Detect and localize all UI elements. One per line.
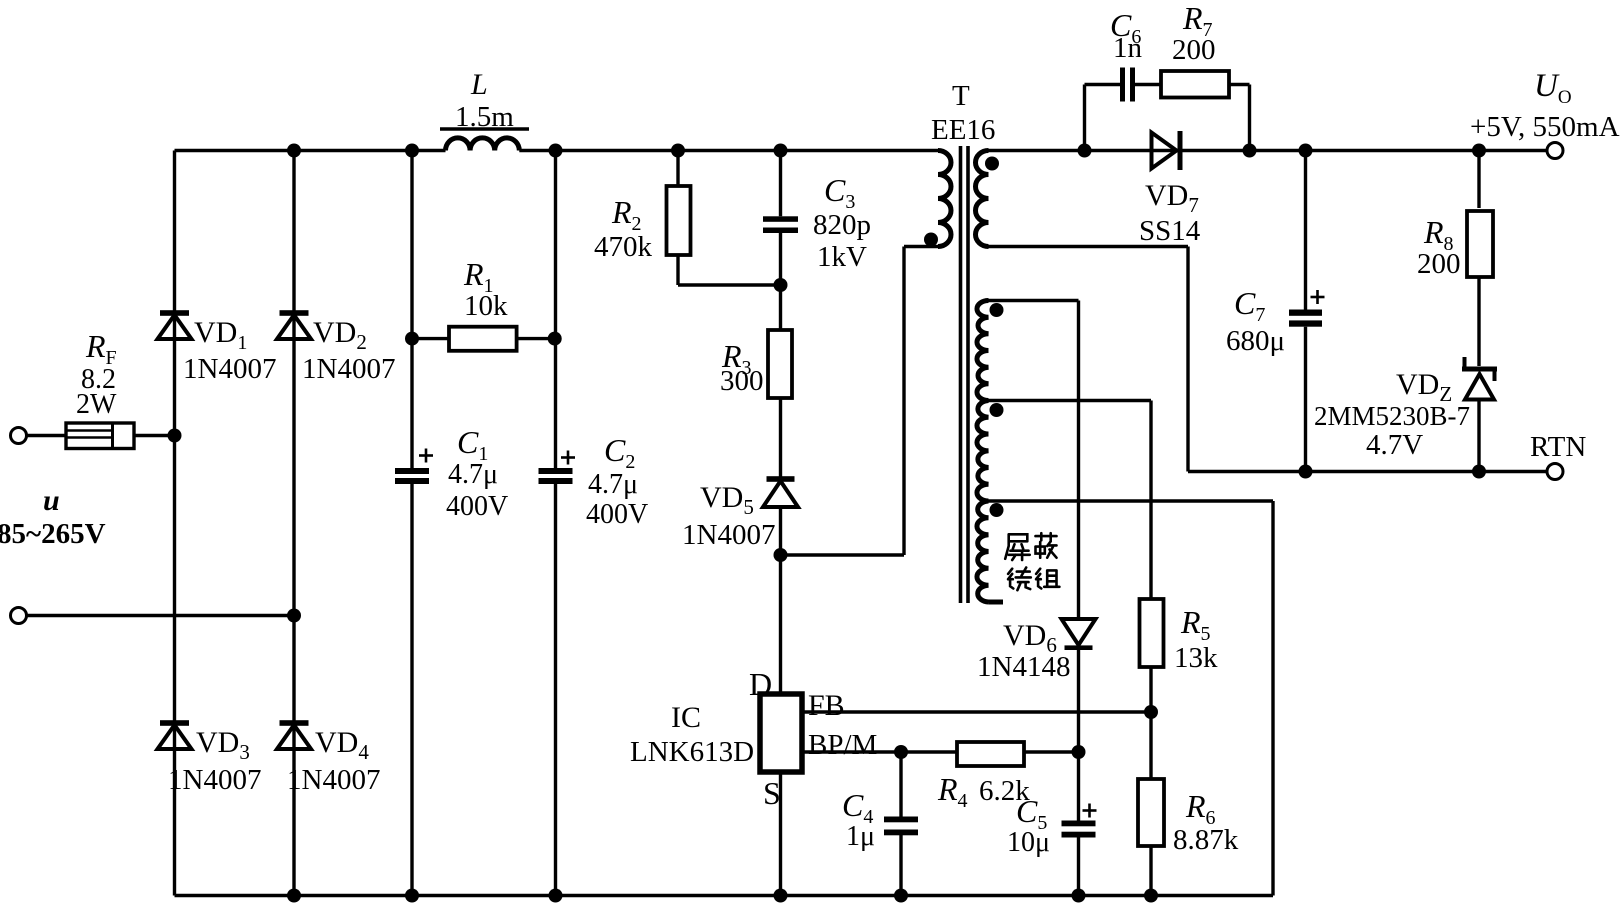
svg-text:680μ: 680μ bbox=[1226, 325, 1285, 357]
svg-text:T: T bbox=[952, 80, 970, 112]
svg-text:400V: 400V bbox=[446, 491, 508, 522]
svg-text:400V: 400V bbox=[586, 499, 648, 530]
svg-text:4.7μ: 4.7μ bbox=[448, 459, 498, 490]
svg-text:300: 300 bbox=[720, 365, 764, 397]
svg-text:85~265V: 85~265V bbox=[0, 518, 106, 550]
svg-text:820p: 820p bbox=[813, 209, 871, 241]
svg-text:10k: 10k bbox=[464, 290, 508, 322]
svg-text:u: u bbox=[43, 484, 60, 517]
svg-text:1N4007: 1N4007 bbox=[302, 353, 395, 385]
svg-text:+5V, 550mA: +5V, 550mA bbox=[1470, 111, 1620, 143]
svg-text:D: D bbox=[749, 666, 772, 702]
svg-text:SS14: SS14 bbox=[1139, 215, 1201, 247]
svg-text:RTN: RTN bbox=[1530, 431, 1586, 463]
svg-text:IC: IC bbox=[671, 701, 701, 734]
svg-text:2MM5230B-7: 2MM5230B-7 bbox=[1314, 401, 1470, 431]
svg-text:200: 200 bbox=[1417, 248, 1461, 280]
svg-text:1N4007: 1N4007 bbox=[183, 353, 276, 385]
svg-text:S: S bbox=[763, 775, 781, 811]
svg-text:1N4148: 1N4148 bbox=[977, 651, 1070, 683]
svg-text:10μ: 10μ bbox=[1007, 827, 1050, 858]
svg-text:470k: 470k bbox=[594, 231, 653, 263]
svg-text:EE16: EE16 bbox=[931, 114, 995, 146]
svg-text:LNK613D: LNK613D bbox=[630, 736, 754, 768]
svg-text:4.7V: 4.7V bbox=[1366, 429, 1423, 461]
svg-text:8.87k: 8.87k bbox=[1173, 824, 1239, 856]
svg-text:1μ: 1μ bbox=[846, 821, 875, 852]
svg-text:1N4007: 1N4007 bbox=[682, 519, 775, 551]
svg-text:L: L bbox=[470, 68, 488, 101]
svg-text:200: 200 bbox=[1172, 34, 1216, 66]
svg-text:1.5m: 1.5m bbox=[455, 101, 514, 133]
svg-text:1N4007: 1N4007 bbox=[168, 764, 261, 796]
svg-text:FB: FB bbox=[808, 689, 845, 722]
svg-text:1kV: 1kV bbox=[817, 241, 867, 273]
svg-text:4.7μ: 4.7μ bbox=[588, 469, 638, 500]
svg-text:1n: 1n bbox=[1113, 32, 1143, 64]
svg-text:13k: 13k bbox=[1174, 642, 1218, 674]
svg-text:1N4007: 1N4007 bbox=[287, 764, 380, 796]
svg-text:2W: 2W bbox=[76, 389, 117, 420]
svg-text:BP/M: BP/M bbox=[808, 729, 877, 761]
